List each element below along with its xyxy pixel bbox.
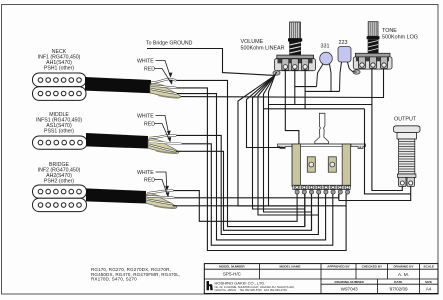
output jack base	[398, 174, 416, 177]
svg-text:331: 331	[321, 44, 330, 50]
bridge white wire	[147, 191, 173, 194]
middle white leader	[156, 116, 169, 135]
wire middle bare to switch lug3	[176, 151, 312, 230]
switch contact strip B	[328, 157, 336, 172]
svg-text:OUTPUT: OUTPUT	[394, 117, 417, 123]
middle cable fray shield	[148, 140, 179, 154]
svg-text:A. M.: A. M.	[398, 272, 409, 278]
switch lugs 1-8	[294, 186, 350, 190]
wire bridge white to switch lug1	[173, 191, 297, 222]
wire bridge shield to lug8 riser	[173, 205, 347, 207]
bridge bare wire	[147, 200, 173, 205]
neck red wire	[151, 86, 176, 88]
wire tone lug2 to jack tip	[372, 69, 402, 191]
models list	[91, 267, 180, 281]
bridge WHITE label	[137, 170, 155, 184]
middle white wire	[149, 135, 176, 138]
wire middle white to switch lug4	[176, 135, 318, 234]
wire bridge red to switch lug7	[174, 194, 338, 198]
neck cable	[85, 77, 151, 93]
svg-text:WHITE: WHITE	[137, 114, 154, 120]
hoshino address	[215, 285, 295, 292]
wire volume lug2 to tone lug2 riser	[294, 69, 296, 105]
svg-text:DRAWING NUMBER: DRAWING NUMBER	[335, 280, 365, 284]
hoshino logo	[207, 281, 213, 290]
neck white leader	[156, 61, 171, 77]
wire jack sleeve to switch lug7 riser	[339, 186, 411, 201]
volume pot label	[241, 39, 285, 52]
switch lug rivets	[295, 190, 350, 194]
wire volume lug3 to jack sleeve	[304, 69, 306, 109]
bridge cable	[86, 188, 146, 203]
capacitor 331 disc	[320, 52, 333, 65]
svg-text:HOSHINO GAKKI CO., LTD.: HOSHINO GAKKI CO., LTD.	[215, 280, 266, 285]
wire neck shield to tone lug3	[181, 69, 384, 98]
potentiometer TONE body	[353, 22, 392, 69]
neck white wire	[151, 79, 176, 83]
bridge coil2 polepieces	[38, 203, 81, 208]
wire volume lug3 to cap223 leg	[305, 90, 339, 92]
svg-text:To Bridge GROUND: To Bridge GROUND	[146, 41, 193, 47]
tone lug 3	[381, 57, 388, 69]
bridge cable fray shield	[146, 195, 177, 209]
tone pot label	[382, 28, 418, 41]
wire neck white to switch lug2	[176, 80, 304, 226]
pickup NECK humbucker coil 1	[33, 73, 87, 87]
svg-text:VOLUME: VOLUME	[241, 39, 264, 45]
svg-text:500Kohm LOG: 500Kohm LOG	[382, 35, 418, 41]
svg-text:PSH2 (other): PSH2 (other)	[44, 179, 75, 185]
svg-text:MODEL NAME: MODEL NAME	[279, 265, 300, 269]
wire to bridge ground	[147, 49, 275, 76]
svg-text:A4: A4	[426, 287, 432, 292]
title block headers	[219, 265, 434, 284]
middle red leader	[155, 124, 170, 141]
volume lug 1	[282, 59, 289, 70]
neck pickup label	[38, 49, 81, 72]
volume lug 2	[291, 59, 298, 70]
svg-text:W97043: W97043	[341, 287, 359, 292]
ground fan stub to volume casing	[275, 72, 277, 75]
capacitor 223 box	[338, 47, 351, 63]
svg-text:RED: RED	[144, 178, 155, 184]
bridge red wire	[147, 196, 174, 198]
bridge coil1 polepieces	[38, 189, 81, 194]
svg-text:CHECKED BY: CHECKED BY	[362, 265, 383, 269]
svg-text:MODEL NUMBER: MODEL NUMBER	[219, 265, 245, 269]
svg-text:223: 223	[339, 40, 348, 46]
output jack tip lug	[399, 177, 406, 186]
output jack neck	[397, 133, 417, 140]
middle bare wire	[149, 145, 176, 152]
tone casing ground solder	[353, 70, 360, 74]
switch rivet stub 7	[338, 194, 340, 201]
middle polepieces	[38, 140, 82, 145]
tone lug 1	[359, 57, 366, 69]
switch contact strip A	[307, 157, 315, 172]
svg-text:SIZE: SIZE	[425, 280, 432, 284]
middle cable	[86, 133, 148, 149]
svg-text:RED: RED	[144, 67, 155, 73]
svg-text:DRAWING BY: DRAWING BY	[393, 265, 414, 269]
switch rivet stub 2	[304, 194, 306, 227]
5-way switch lever	[315, 113, 329, 143]
switch rivet stub 3	[311, 194, 313, 230]
svg-text:APPROVED BY: APPROVED BY	[327, 265, 350, 269]
ground fan line 1	[238, 75, 297, 206]
switch plate line across body	[292, 145, 351, 147]
capacitor 223 legs	[340, 62, 342, 91]
pickup MIDDLE single coil	[33, 136, 88, 149]
wire neck bare to switch lug5	[177, 94, 326, 240]
bridge red leader	[155, 180, 168, 196]
ground fan line 2 to switch frame	[247, 75, 286, 147]
pickup NECK humbucker coil 2	[33, 87, 87, 101]
neck WHITE label	[137, 59, 155, 73]
neck cable fray shield	[150, 84, 181, 98]
wire middle red to switch lug6	[182, 144, 333, 245]
switch right side bar	[342, 144, 350, 186]
switch left side bar	[292, 144, 300, 186]
neck red leader	[155, 69, 172, 84]
ground fan line 3 to lug2 riser	[253, 75, 305, 209]
output jack sleeve lug	[407, 177, 414, 186]
svg-text:TONE: TONE	[382, 28, 397, 34]
neck coil1 polepieces	[38, 78, 81, 83]
switch lug strip	[293, 185, 350, 189]
output jack threaded body	[399, 139, 415, 174]
bridge white leader	[156, 172, 167, 189]
svg-text:PSH1 (other): PSH1 (other)	[44, 66, 75, 72]
svg-text:WHITE: WHITE	[137, 59, 154, 65]
pickup BRIDGE humbucker coil 2	[33, 198, 87, 211]
capacitor 331 legs	[317, 64, 324, 87]
middle red wire	[149, 142, 182, 144]
middle WHITE label	[137, 114, 155, 128]
svg-text:WHITE: WHITE	[137, 170, 154, 176]
switch ear screws	[281, 146, 283, 148]
middle pickup label	[36, 112, 82, 135]
svg-text:500Kohm LINEAR: 500Kohm LINEAR	[241, 46, 285, 52]
title block frame	[204, 264, 438, 294]
ground fan line 6	[269, 75, 275, 206]
bridge pickup label	[38, 162, 81, 185]
5-way switch mounting plate	[278, 144, 293, 149]
svg-text:RED: RED	[144, 122, 155, 128]
5-way switch body	[292, 144, 351, 186]
wire neck red to switch lug8	[176, 88, 346, 251]
ground fan line 4 to lug4 riser	[258, 75, 318, 215]
svg-text:'97/02/09: '97/02/09	[389, 287, 408, 292]
neck bare wire	[151, 89, 177, 94]
volume casing ground solder	[273, 71, 280, 75]
pickup BRIDGE humbucker coil 1	[33, 185, 87, 198]
svg-text:PSS1 (other): PSS1 (other)	[44, 129, 74, 135]
svg-text:DATE: DATE	[394, 280, 402, 284]
tone lug 2	[370, 57, 377, 69]
svg-text:SCALE: SCALE	[424, 265, 435, 269]
wire volume lug1 to ground riser	[285, 69, 299, 144]
ground fan line 5 to lug3 riser	[264, 75, 312, 212]
neck coil2 polepieces	[38, 91, 81, 96]
wire volume lug2 to cap331 leg	[295, 86, 317, 88]
output jack flange	[394, 126, 421, 133]
volume lug 3	[302, 59, 309, 70]
svg-text:RX170D, S470, S270: RX170D, S470, S270	[91, 276, 137, 281]
svg-text:NAGOYA, JAPAN TEL 052-935-: NAGOYA, JAPAN TEL 052-935-5710 FAX 052-9…	[215, 288, 288, 292]
potentiometer VOLUME body	[275, 22, 316, 71]
svg-text:SP5-H/C: SP5-H/C	[223, 272, 242, 277]
